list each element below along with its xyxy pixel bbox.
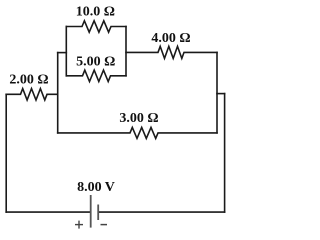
wire: mid vertical from stub down to 3.00 ohm wire bbox=[57, 53, 59, 133]
battery B1 positive plate (long) bbox=[90, 195, 92, 228]
svg-text:3.00 Ω: 3.00 Ω bbox=[119, 111, 158, 126]
wire: inner right vertical (4.00 ohm branch down to 3.00 ohm wire) bbox=[216, 52, 218, 132]
node: parallel box right edge bbox=[125, 27, 127, 76]
wire: stub from mid vertical to box left edge bbox=[58, 52, 67, 54]
battery polarity minus sign bbox=[101, 224, 108, 226]
wire: bottom wire left segment to battery positive plate bbox=[6, 211, 90, 213]
wire: bottom wire right segment from battery negative plate bbox=[99, 211, 225, 213]
battery B1 negative plate (short) bbox=[97, 205, 99, 221]
svg-text:4.00 Ω: 4.00 Ω bbox=[151, 31, 190, 46]
resistor R5 5.00 ohm on box bottom edge bbox=[66, 70, 126, 81]
svg-text:10.0 Ω: 10.0 Ω bbox=[76, 5, 115, 20]
resistor R1 10.0 ohm on box top edge bbox=[66, 21, 126, 32]
node: parallel box left edge bbox=[65, 27, 67, 76]
svg-text:5.00 Ω: 5.00 Ω bbox=[76, 54, 115, 69]
wire: left vertical from 2.00 ohm wire down to bottom wire bbox=[5, 94, 7, 212]
wire: jog from outer vertical to inner right vertical bbox=[217, 93, 225, 95]
resistor R2 2.00 ohm with left wire bbox=[6, 89, 58, 100]
svg-text:8.00 V: 8.00 V bbox=[77, 180, 115, 195]
resistor R4 4.00 ohm with top-right wire bbox=[126, 46, 217, 58]
resistor R3 3.00 ohm with middle wire bbox=[58, 127, 217, 138]
wire: right outer vertical up to jog bbox=[224, 94, 226, 213]
battery polarity plus sign bbox=[75, 221, 83, 229]
svg-text:2.00 Ω: 2.00 Ω bbox=[9, 72, 48, 87]
